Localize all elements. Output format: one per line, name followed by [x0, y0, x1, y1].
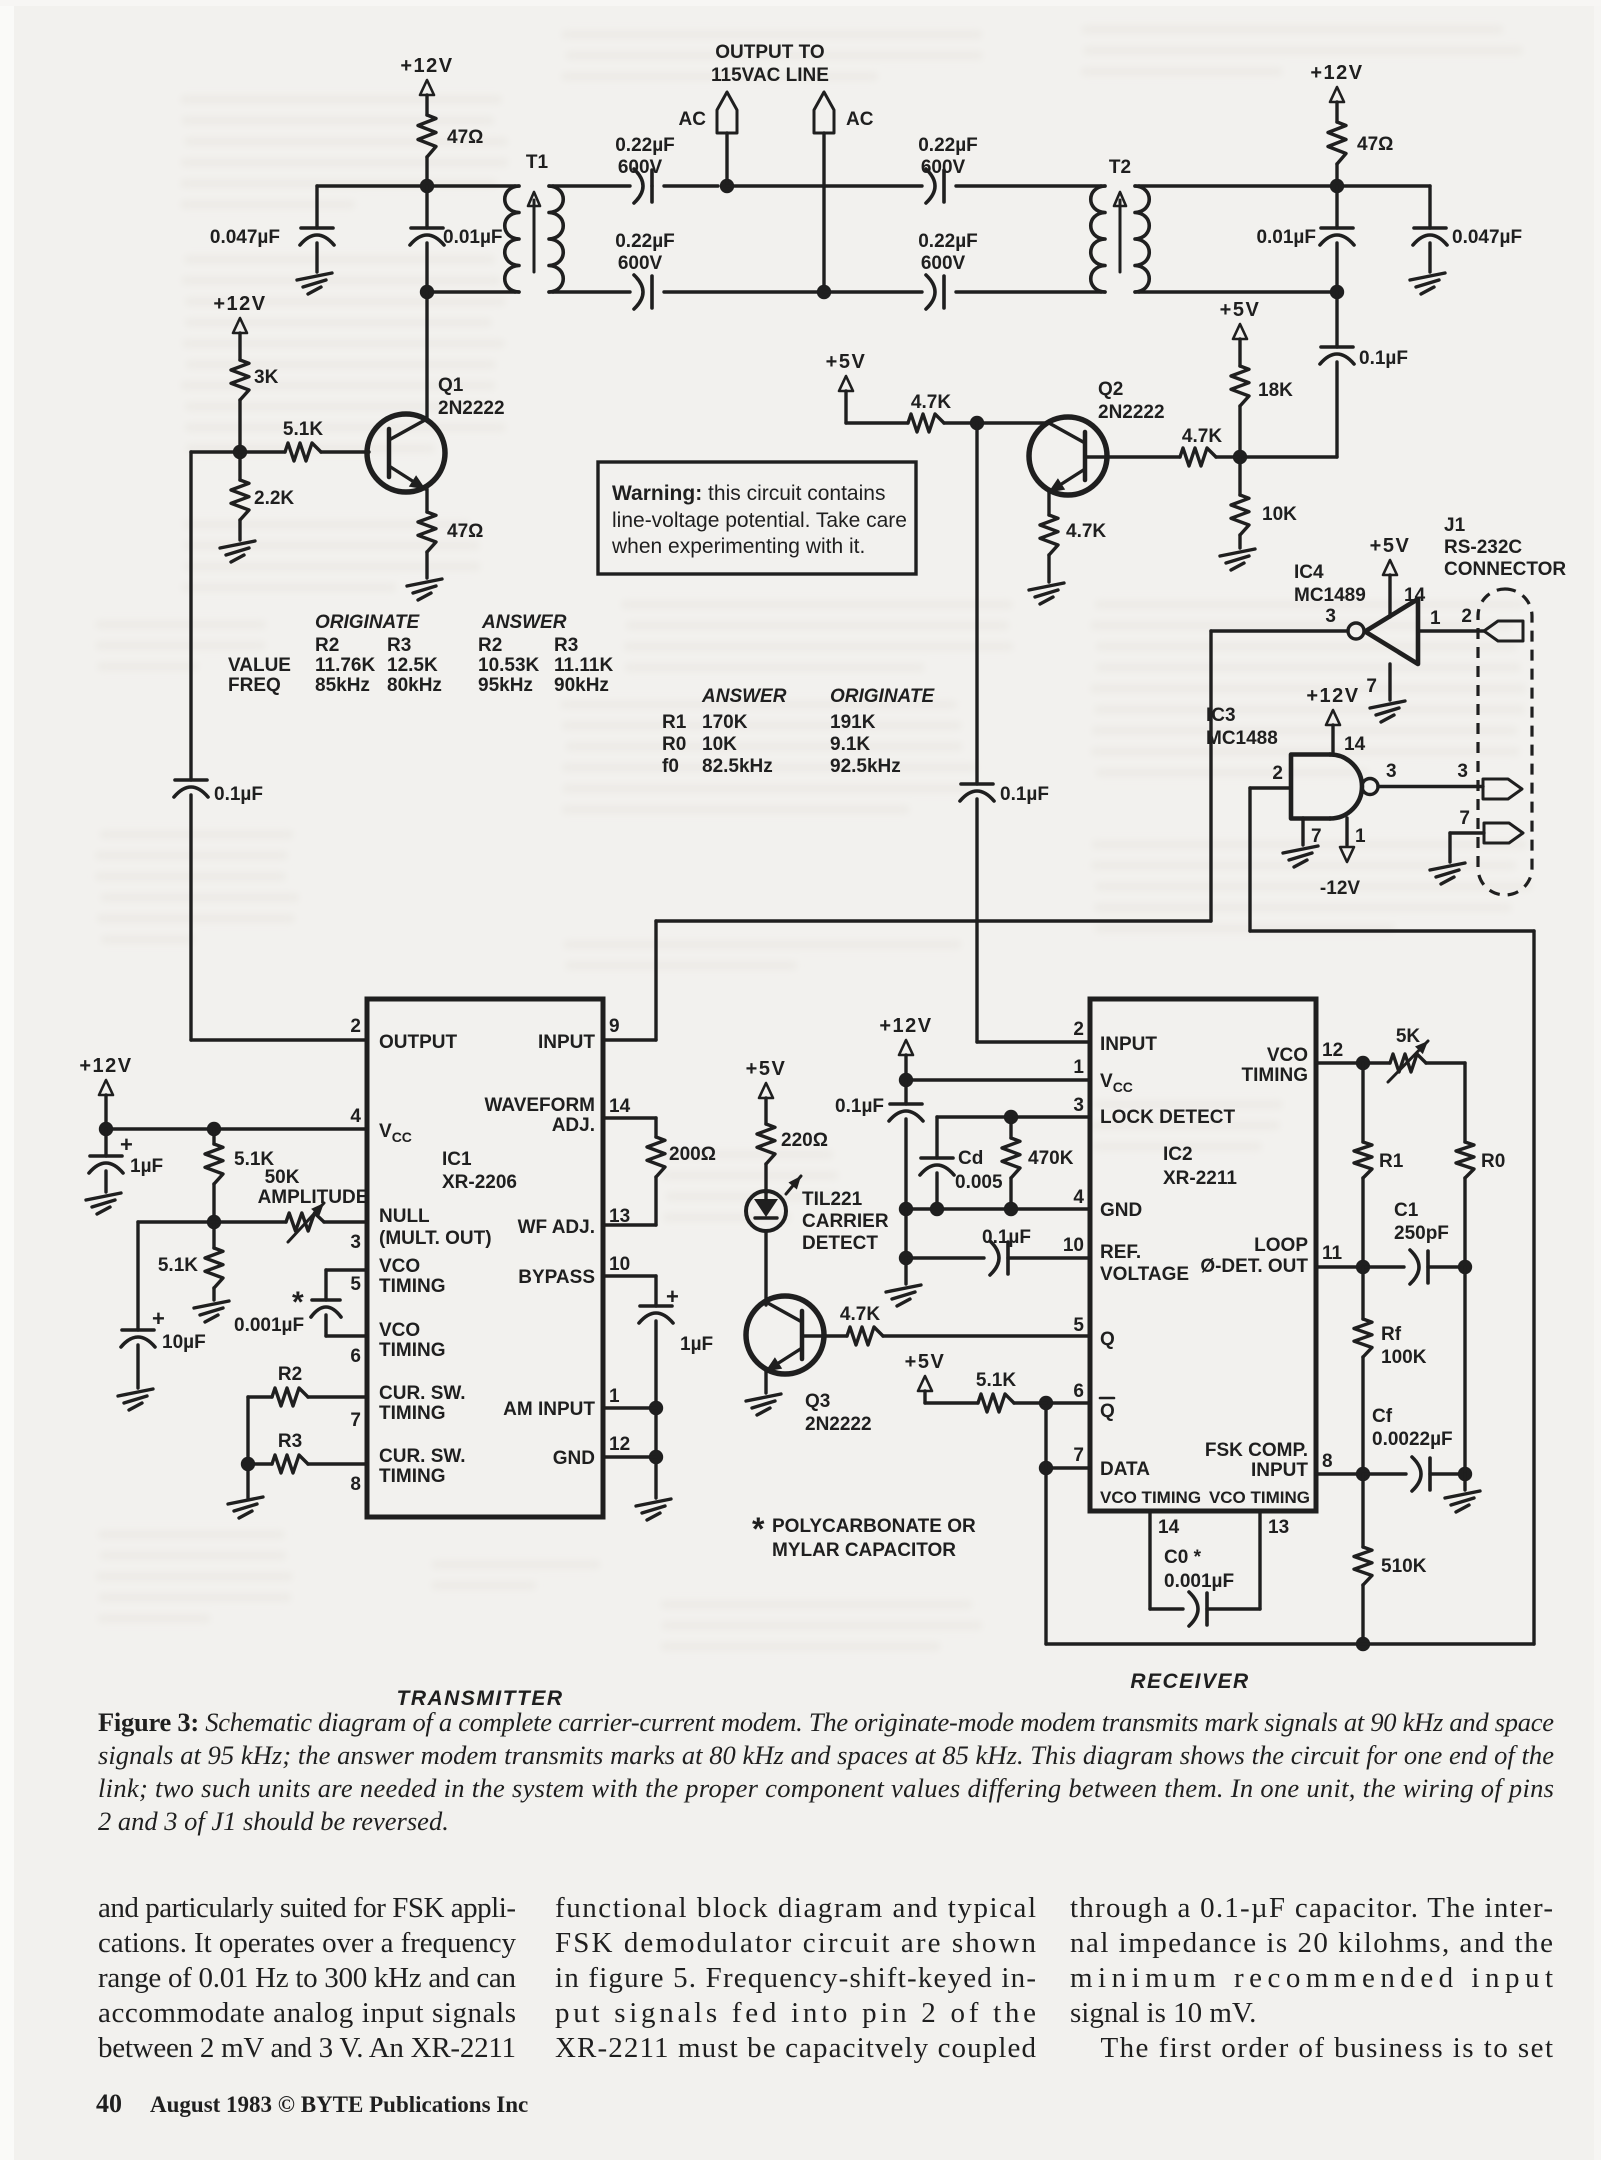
svg-text:between 2 mV and 3 V. An XR-22: between 2 mV and 3 V. An XR-2211 — [98, 2032, 516, 2064]
junction node — [1356, 1260, 1370, 1274]
svg-text:5.1K: 5.1K — [158, 1255, 198, 1276]
svg-text:7: 7 — [1366, 676, 1377, 697]
ground (under lower 5.1K) — [212, 1288, 215, 1300]
svg-text:3: 3 — [1457, 761, 1468, 782]
svg-text:2 and 3 of J1 should be revers: 2 and 3 of J1 should be reversed. — [98, 1806, 449, 1836]
svg-text:and particularly suited for FS: and particularly suited for FSK appli- — [98, 1892, 516, 1924]
svg-text:R1: R1 — [662, 712, 687, 733]
junction node — [1458, 1260, 1472, 1274]
wire Q2 collector — [944, 421, 1049, 424]
svg-text:AM INPUT: AM INPUT — [503, 1399, 595, 1420]
svg-text:VCO TIMING: VCO TIMING — [1100, 1488, 1201, 1507]
wire bottom rail — [1046, 1642, 1534, 1645]
svg-text:Q: Q — [1100, 1401, 1115, 1422]
svg-text:FREQ: FREQ — [228, 675, 281, 696]
svg-text:AC: AC — [679, 109, 707, 130]
svg-text:MC1489: MC1489 — [1294, 585, 1366, 606]
svg-text:The first order of business is: The first order of business is to set — [1070, 2032, 1553, 2064]
potentiometer 50K AMPLITUDE — [214, 1220, 286, 1223]
svg-text:INPUT: INPUT — [1251, 1460, 1308, 1481]
ground (J1 pin 7) — [1450, 831, 1484, 834]
resistor 47Ω (Q1 emitter) — [418, 512, 436, 552]
potentiometer 5K (VCO timing) — [1316, 1061, 1390, 1064]
wire T2 secondary top — [1139, 184, 1337, 187]
svg-text:NULL: NULL — [379, 1206, 430, 1227]
svg-text:Q: Q — [1100, 1329, 1115, 1350]
svg-text:AMPLITUDE: AMPLITUDE — [258, 1187, 369, 1208]
junction node (GND) — [649, 1450, 663, 1464]
svg-text:14: 14 — [1158, 1517, 1180, 1538]
svg-text:nal impedance is 20 kilohms, a: nal impedance is 20 kilohms, and the — [1070, 1927, 1553, 1959]
capacitor 0.047µF — [315, 186, 318, 228]
svg-text:7: 7 — [350, 1410, 361, 1431]
transistor Q2 2N2222 — [1029, 417, 1107, 495]
wire T2 secondary bottom — [1139, 290, 1337, 293]
wire DATA to rail — [1046, 1466, 1090, 1469]
wire MC1489 input pin1 to J1 pin2 — [1418, 629, 1484, 632]
svg-text:4.7K: 4.7K — [1066, 521, 1106, 542]
svg-text:0.22µF: 0.22µF — [918, 135, 978, 156]
resistor R0 — [1456, 1142, 1474, 1178]
junction node — [1458, 1467, 1472, 1481]
svg-text:RECEIVER: RECEIVER — [1130, 1670, 1249, 1693]
svg-text:IC3: IC3 — [1206, 705, 1236, 726]
capacitor 0.01µF (right) — [1335, 186, 1338, 228]
svg-text:ADJ.: ADJ. — [552, 1115, 595, 1136]
svg-text:2N2222: 2N2222 — [438, 398, 505, 419]
svg-text:Q3: Q3 — [805, 1391, 830, 1412]
svg-text:5: 5 — [1073, 1315, 1084, 1336]
transistor Q1 2N2222 — [367, 414, 445, 492]
svg-text:R1: R1 — [1379, 1151, 1404, 1172]
svg-text:f0: f0 — [662, 756, 679, 777]
wire R2/R3 common — [246, 1397, 249, 1498]
svg-text:+: + — [152, 1306, 165, 1331]
svg-text:REF.: REF. — [1100, 1242, 1141, 1263]
svg-text:R2: R2 — [315, 635, 339, 656]
svg-text:1: 1 — [1355, 826, 1366, 847]
svg-text:2.2K: 2.2K — [254, 488, 294, 509]
svg-text:115VAC LINE: 115VAC LINE — [711, 65, 829, 86]
junction node (AM input) — [649, 1401, 663, 1415]
capacitor 0.047µF (right) — [1428, 186, 1431, 228]
svg-text:2: 2 — [350, 1016, 361, 1037]
svg-text:80kHz: 80kHz — [387, 675, 442, 696]
svg-text:100K: 100K — [1381, 1347, 1427, 1368]
svg-text:0.001µF: 0.001µF — [1164, 1571, 1234, 1592]
capacitor 0.1µF (IC2 VCC bypass) — [904, 1080, 907, 1104]
svg-text:*: * — [752, 1511, 765, 1547]
wire Q3 emitter — [764, 1371, 767, 1393]
wire pin12 GND — [603, 1455, 656, 1458]
svg-text:VCO: VCO — [1267, 1045, 1308, 1066]
svg-text:47Ω: 47Ω — [447, 521, 483, 542]
svg-text:MYLAR CAPACITOR: MYLAR CAPACITOR — [772, 1540, 956, 1561]
wire FSK comp input — [1316, 1472, 1363, 1475]
wire MC1488 input routing — [1248, 788, 1251, 931]
ground (R2/R3) — [228, 1497, 263, 1518]
junction node — [1356, 1467, 1370, 1481]
svg-text:signals at 95 kHz; the answer: signals at 95 kHz; the answer modem tran… — [98, 1740, 1554, 1770]
svg-text:TIL221: TIL221 — [802, 1189, 863, 1210]
svg-text:5: 5 — [350, 1274, 361, 1295]
wire — [1238, 406, 1241, 457]
svg-text:11.76K: 11.76K — [315, 655, 375, 676]
wire receiver input line — [975, 423, 978, 784]
capacitor 1µF (bypass, polarized) — [603, 1274, 656, 1277]
resistor 5.1K (lower) — [212, 1222, 215, 1248]
svg-text:9: 9 — [609, 1016, 620, 1037]
svg-text:0.1µF: 0.1µF — [982, 1227, 1031, 1248]
svg-text:12.5K: 12.5K — [387, 655, 438, 676]
svg-text:+5V: +5V — [905, 1351, 946, 1373]
capacitor 1µF (polarized) — [104, 1129, 107, 1156]
svg-text:T2: T2 — [1109, 157, 1131, 178]
junction node (Q2 collector) — [970, 416, 984, 430]
svg-text:TIMING: TIMING — [379, 1466, 446, 1487]
svg-text:2N2222: 2N2222 — [805, 1414, 872, 1435]
svg-text:12: 12 — [609, 1434, 630, 1455]
svg-text:INPUT: INPUT — [1100, 1034, 1157, 1055]
junction nodes on ground rail — [930, 1202, 944, 1216]
wire T1 secondary top — [553, 184, 630, 187]
svg-text:10K: 10K — [1262, 504, 1297, 525]
svg-text:7: 7 — [1311, 826, 1322, 847]
svg-text:47Ω: 47Ω — [1357, 134, 1393, 155]
ground (under 2.2K) — [238, 520, 241, 540]
svg-text:MC1488: MC1488 — [1206, 728, 1278, 749]
ground (MC1489 pin7) — [1388, 664, 1391, 700]
svg-text:Cd: Cd — [958, 1148, 983, 1169]
resistor 4.7K (collector pull-up) — [908, 414, 944, 432]
capacitor C1 250pF — [1363, 1265, 1404, 1268]
junction node (Qbar) — [1039, 1396, 1053, 1410]
svg-text:2N2222: 2N2222 — [1098, 402, 1165, 423]
svg-text:ORIGINATE: ORIGINATE — [830, 686, 935, 707]
capacitor 0.22µF 600V (lower right) — [942, 276, 946, 308]
svg-text:18K: 18K — [1258, 380, 1293, 401]
svg-text:10: 10 — [1063, 1235, 1084, 1256]
svg-text:through a 0.1-µF capacitor. Th: through a 0.1-µF capacitor. The inter- — [1070, 1892, 1553, 1924]
svg-text:0.1µF: 0.1µF — [1359, 348, 1408, 369]
svg-text:CUR. SW.: CUR. SW. — [379, 1383, 466, 1404]
LED TIL221 (carrier detect) — [746, 1191, 786, 1231]
wire to 10µF — [138, 1220, 214, 1223]
svg-text:FSK COMP.: FSK COMP. — [1205, 1440, 1308, 1461]
svg-text:+12V: +12V — [213, 293, 266, 315]
svg-text:VCO TIMING: VCO TIMING — [1209, 1488, 1310, 1507]
resistor 4.7K (Q3 base) — [847, 1327, 883, 1345]
capacitor 0.22µF 600V (upper left) — [650, 170, 654, 202]
wire IC2 VCC — [906, 1078, 1090, 1081]
svg-text:INPUT: INPUT — [538, 1032, 595, 1053]
wire — [650, 184, 653, 187]
ground (right column) — [1445, 1491, 1480, 1512]
resistor 2.2K — [238, 452, 241, 480]
resistor 5.1K (pull-up) — [978, 1394, 1014, 1412]
svg-text:+12V: +12V — [400, 55, 453, 77]
svg-text:8: 8 — [1322, 1451, 1333, 1472]
svg-text:0.047µF: 0.047µF — [1452, 227, 1522, 248]
svg-text:Warning: this circuit contains: Warning: this circuit contains — [612, 482, 885, 505]
svg-text:+12V: +12V — [1310, 62, 1363, 84]
svg-text:0.22µF: 0.22µF — [615, 135, 675, 156]
junction node — [207, 1122, 221, 1136]
wire — [238, 400, 241, 452]
supply -12V (MC1488 pin 1) — [1345, 818, 1348, 845]
svg-text:(MULT. OUT): (MULT. OUT) — [379, 1228, 492, 1249]
capacitor 0.001µF (VCO timing) — [326, 1268, 367, 1271]
svg-text:-12V: -12V — [1320, 878, 1360, 899]
resistor 18K — [1231, 366, 1249, 406]
svg-text:R2: R2 — [278, 1364, 302, 1385]
svg-text:cations. It operates over a fr: cations. It operates over a frequency — [98, 1927, 517, 1959]
resistor R1 — [1354, 1142, 1372, 1178]
wire pin 9 INPUT to MC1489 output — [603, 1038, 656, 1041]
resistor R3 — [308, 1462, 367, 1465]
svg-text:0.001µF: 0.001µF — [234, 1315, 304, 1336]
junction node (amplitude pot) — [207, 1215, 221, 1229]
wire — [824, 290, 922, 293]
wire R0/Cf to ground — [1463, 1267, 1466, 1474]
ground (IC1 pin12) — [636, 1499, 671, 1520]
svg-text:signal is 10 mV.: signal is 10 mV. — [1070, 1997, 1256, 2029]
warning box — [598, 462, 916, 574]
wire LOOP output — [1316, 1265, 1363, 1268]
svg-text:7: 7 — [1073, 1445, 1084, 1466]
wire Q1 collector — [425, 292, 428, 420]
svg-text:WF ADJ.: WF ADJ. — [518, 1217, 595, 1238]
bleed-through ghosts — [180, 95, 508, 209]
svg-text:10µF: 10µF — [162, 1332, 206, 1353]
svg-text:191K: 191K — [830, 712, 876, 733]
svg-text:BYPASS: BYPASS — [518, 1267, 595, 1288]
J1 pin 2 contact — [1484, 621, 1523, 641]
svg-text:11: 11 — [1322, 1243, 1343, 1264]
capacitor C0 0.001µF (VCO timing) — [1148, 1511, 1151, 1609]
svg-text:+12V: +12V — [879, 1015, 932, 1037]
svg-text:82.5kHz: 82.5kHz — [702, 756, 773, 777]
svg-text:0.1µF: 0.1µF — [214, 784, 263, 805]
svg-text:TIMING: TIMING — [1242, 1065, 1309, 1086]
svg-text:R0: R0 — [1481, 1151, 1505, 1172]
svg-text:+12V: +12V — [1306, 685, 1359, 707]
wire output line down to IC1 — [189, 452, 192, 780]
svg-text:11.11K: 11.11K — [554, 655, 613, 676]
wire to IC2 Q output — [883, 1334, 1090, 1337]
svg-text:510K: 510K — [1381, 1556, 1427, 1577]
svg-text:3K: 3K — [254, 367, 279, 388]
resistor 3K — [231, 360, 249, 400]
svg-text:Ø-DET. OUT: Ø-DET. OUT — [1200, 1256, 1308, 1277]
svg-text:7: 7 — [1459, 808, 1470, 829]
resistor 4.7K (Q2 emitter) — [1040, 515, 1058, 555]
junction node — [420, 179, 434, 193]
svg-text:DATA: DATA — [1100, 1459, 1150, 1480]
svg-text:10.53K: 10.53K — [478, 655, 540, 676]
svg-text:2: 2 — [1073, 1019, 1084, 1040]
wire LED to Q3 collector — [764, 1231, 767, 1305]
svg-text:85kHz: 85kHz — [315, 675, 370, 696]
svg-text:accommodate analog input signa: accommodate analog input signals — [98, 1997, 516, 2029]
wire Q2 emitter — [1047, 492, 1050, 515]
svg-text:9.1K: 9.1K — [830, 734, 870, 755]
svg-text:+12V: +12V — [79, 1055, 132, 1077]
svg-text:600V: 600V — [618, 157, 663, 178]
junction node — [899, 1073, 913, 1087]
ground (under 0.047µF) — [297, 273, 332, 294]
svg-text:14: 14 — [1344, 734, 1366, 755]
svg-text:1: 1 — [1073, 1057, 1084, 1078]
resistor 5.1K (Q1 base) — [285, 443, 321, 461]
svg-text:10: 10 — [609, 1254, 630, 1275]
svg-text:Cf: Cf — [1372, 1406, 1393, 1427]
svg-text:VCO: VCO — [379, 1256, 420, 1277]
svg-text:4.7K: 4.7K — [1182, 426, 1222, 447]
svg-text:5.1K: 5.1K — [976, 1370, 1016, 1391]
ground (under 10µF) — [118, 1389, 153, 1410]
wire pin1 AM INPUT — [603, 1406, 656, 1409]
svg-text:CONNECTOR: CONNECTOR — [1444, 559, 1566, 580]
wire MC1488 input pin 2 — [1250, 786, 1291, 789]
svg-text:AC: AC — [846, 109, 874, 130]
svg-text:4: 4 — [350, 1106, 361, 1127]
svg-text:R3: R3 — [278, 1431, 302, 1452]
svg-text:T1: T1 — [526, 152, 549, 173]
wire T1 secondary bottom — [553, 290, 630, 293]
svg-text:R3: R3 — [554, 635, 578, 656]
resistor 200Ω (waveform adj) — [603, 1116, 656, 1119]
svg-text:August 1983 © BYTE Publication: August 1983 © BYTE Publications Inc — [150, 2092, 528, 2117]
svg-text:250pF: 250pF — [1394, 1223, 1449, 1244]
svg-text:when experimenting with it.: when experimenting with it. — [611, 535, 865, 558]
capacitor 0.22µF 600V (upper right) — [942, 170, 946, 202]
wire T1 bottom — [427, 290, 515, 293]
ground (Q2 emitter) — [1047, 555, 1050, 582]
svg-text:600V: 600V — [921, 157, 966, 178]
J1 pin 7 contact — [1484, 823, 1523, 843]
ground (IC2 bypass rail) — [904, 1258, 907, 1284]
svg-text:50K: 50K — [265, 1167, 300, 1188]
svg-text:220Ω: 220Ω — [781, 1130, 828, 1151]
ground (Q1 emitter) — [425, 552, 428, 578]
transistor Q3 2N2222 — [746, 1296, 824, 1374]
svg-text:0.1µF: 0.1µF — [835, 1096, 884, 1117]
resistor 47Ω (top left) — [418, 115, 436, 157]
svg-text:170K: 170K — [702, 712, 748, 733]
wire down to REF junction — [904, 1209, 907, 1258]
svg-text:TIMING: TIMING — [379, 1276, 446, 1297]
svg-text:line-voltage potential. Take c: line-voltage potential. Take care — [612, 509, 907, 532]
capacitor Cd 0.005 — [921, 1156, 953, 1160]
svg-text:10K: 10K — [702, 734, 737, 755]
svg-text:WAVEFORM: WAVEFORM — [485, 1095, 595, 1116]
svg-text:range of 0.01 Hz to 300 kHz an: range of 0.01 Hz to 300 kHz and can — [98, 1962, 517, 1994]
svg-text:470K: 470K — [1028, 1148, 1074, 1169]
resistor R2 — [308, 1395, 367, 1398]
svg-text:8: 8 — [350, 1474, 361, 1495]
svg-text:C1: C1 — [1394, 1200, 1419, 1221]
svg-text:TIMING: TIMING — [379, 1403, 446, 1424]
resistor 5.1K (upper) — [212, 1129, 215, 1144]
svg-text:0.22µF: 0.22µF — [615, 231, 675, 252]
svg-text:3: 3 — [1073, 1095, 1084, 1116]
ground (MC1488 pin 7) — [1301, 818, 1304, 845]
svg-text:600V: 600V — [921, 253, 966, 274]
svg-text:functional block diagram and t: functional block diagram and typical — [555, 1892, 1036, 1924]
wire Q3 base — [802, 1334, 847, 1337]
svg-text:XR-2206: XR-2206 — [442, 1172, 517, 1193]
wire R1 branch — [1361, 1063, 1364, 1142]
ground (Q3 emitter) — [746, 1394, 781, 1415]
svg-text:VALUE: VALUE — [228, 655, 291, 676]
junction node — [899, 1251, 913, 1265]
resistor 10K — [1238, 457, 1241, 495]
capacitor Cf — [1363, 1472, 1406, 1475]
svg-text:0.01µF: 0.01µF — [443, 227, 503, 248]
svg-text:5.1K: 5.1K — [283, 419, 323, 440]
AC plug 1 — [725, 133, 728, 186]
resistor 4.7K (Q2 base) — [1180, 448, 1216, 466]
svg-text:12: 12 — [1322, 1040, 1343, 1061]
svg-text:200Ω: 200Ω — [669, 1144, 716, 1165]
capacitor 0.1µF (REF voltage) — [906, 1256, 984, 1259]
junction node — [241, 1457, 255, 1471]
wire collector rail to T1 top — [425, 157, 428, 186]
capacitor 0.22µF 600V (lower left) — [650, 276, 654, 308]
svg-text:J1: J1 — [1444, 515, 1466, 536]
svg-text:95kHz: 95kHz — [478, 675, 533, 696]
svg-text:C0 *: C0 * — [1164, 1547, 1202, 1568]
svg-text:VOLTAGE: VOLTAGE — [1100, 1264, 1189, 1285]
resistor Rf 100K — [1361, 1267, 1364, 1319]
svg-text:0.0022µF: 0.0022µF — [1372, 1429, 1453, 1450]
svg-text:RS-232C: RS-232C — [1444, 537, 1522, 558]
svg-text:40: 40 — [96, 2089, 122, 2118]
wire MC1489 output — [1211, 629, 1348, 632]
svg-text:3: 3 — [1386, 761, 1397, 782]
wire lock detect to Cd — [937, 1115, 1011, 1118]
svg-text:+5V: +5V — [826, 351, 867, 373]
svg-text:XR-2211: XR-2211 — [1163, 1168, 1237, 1189]
wire VCC rail — [106, 1127, 367, 1130]
svg-text:0.22µF: 0.22µF — [918, 231, 978, 252]
junction node — [99, 1122, 113, 1136]
junction node — [1330, 179, 1344, 193]
wire — [846, 421, 908, 424]
svg-text:14: 14 — [609, 1096, 631, 1117]
svg-text:+5V: +5V — [746, 1058, 787, 1080]
op-amp IC1 XR-2206 body — [367, 999, 603, 1517]
svg-text:LOCK DETECT: LOCK DETECT — [1100, 1107, 1236, 1128]
capacitor 0.01µF (left) — [425, 186, 428, 228]
svg-text:1: 1 — [1430, 608, 1441, 629]
cable outline (dashed) — [1478, 589, 1532, 895]
svg-text:DETECT: DETECT — [802, 1233, 878, 1254]
svg-text:92.5kHz: 92.5kHz — [830, 756, 901, 777]
resistor 47Ω (top right) — [1328, 122, 1346, 164]
svg-text:3: 3 — [1325, 606, 1336, 627]
svg-text:1: 1 — [609, 1386, 620, 1407]
svg-text:TIMING: TIMING — [379, 1340, 446, 1361]
svg-text:5K: 5K — [1396, 1026, 1421, 1047]
resistor 470K — [1009, 1117, 1012, 1138]
svg-text:IC1: IC1 — [442, 1149, 472, 1170]
svg-text:Q2: Q2 — [1098, 379, 1123, 400]
junction node (DATA) — [1039, 1461, 1053, 1475]
op-amp IC2 XR-2211 body — [1090, 999, 1316, 1511]
wire Q1 emitter — [425, 489, 428, 512]
